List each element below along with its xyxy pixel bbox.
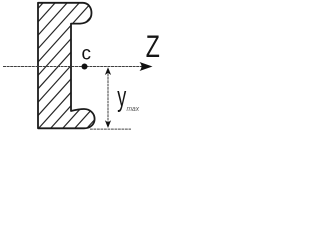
svg-text:c: c	[82, 44, 92, 65]
centroid dot C	[82, 64, 88, 70]
svg-text:y: y	[117, 80, 127, 112]
bottom reference line	[90, 128, 131, 130]
channel section outline	[38, 3, 95, 129]
hatching of section	[0, 0, 202, 132]
svg-text:Z: Z	[146, 28, 160, 64]
y_max dimension arrow (vertical)	[107, 70, 109, 125]
svg-text:max: max	[127, 104, 140, 113]
Z axis arrowhead	[140, 62, 153, 71]
Z axis line	[3, 66, 146, 68]
down arrowhead	[105, 120, 111, 128]
up arrowhead	[105, 67, 111, 75]
